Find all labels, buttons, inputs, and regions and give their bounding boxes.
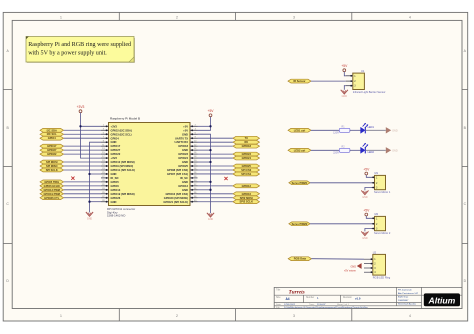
sensor S1 Infrared Light Barrier Sensor: [346, 69, 386, 94]
svg-text:SPI MISO: SPI MISO: [46, 164, 58, 168]
svg-text:I2C SCL: I2C SCL: [47, 132, 57, 136]
svg-text:+3V3: +3V3: [111, 156, 118, 160]
svg-text:IR Sensor: IR Sensor: [293, 79, 305, 83]
svg-text:GPIO17: GPIO17: [111, 144, 121, 148]
svg-text:GPIO19 PWM: GPIO19 PWM: [44, 192, 60, 196]
port GPIO27 (left): [40, 148, 101, 152]
svg-text:Raspberry Pi Model B: Raspberry Pi Model B: [110, 117, 140, 121]
svg-text:GPIO27: GPIO27: [47, 148, 57, 152]
port SPI MISO (left): [40, 164, 101, 168]
svg-text:RGB Data: RGB Data: [294, 257, 307, 261]
svg-text:Date:: Date:: [276, 303, 282, 306]
junction: [79, 125, 81, 127]
svg-text:Servo PWM2: Servo PWM2: [292, 222, 308, 226]
svg-text:GPIO20 (SPI MOSI): GPIO20 (SPI MOSI): [164, 196, 188, 200]
ground arrow (right): [386, 147, 391, 153]
svg-text:GND: GND: [111, 200, 117, 204]
ground symbol right: [207, 213, 214, 217]
svg-text:220R: 220R: [333, 152, 339, 155]
svg-text:SPI SCLK: SPI SCLK: [46, 168, 58, 172]
svg-text:GPIO25: GPIO25: [178, 164, 188, 168]
svg-text:+5V: +5V: [183, 128, 188, 132]
svg-text:GPIO26: GPIO26: [111, 196, 121, 200]
svg-text:Number: Number: [306, 296, 314, 299]
svg-text:4: 4: [409, 314, 411, 318]
zone reference ticks and labels: [118, 12, 120, 20]
svg-text:SPI CS0: SPI CS0: [241, 168, 252, 172]
svg-text:LED1: LED1: [368, 126, 375, 129]
svg-text:GPIO8 (SPI CS0): GPIO8 (SPI CS0): [167, 168, 188, 172]
svg-text:1: 1: [60, 314, 62, 318]
port TX (right): [198, 136, 260, 140]
wire: [350, 149, 361, 151]
svg-text:GPIO19 (SPI MISO): GPIO19 (SPI MISO): [111, 192, 135, 196]
right GND rail: [198, 134, 212, 213]
svg-text:Servo Motor 2: Servo Motor 2: [374, 231, 391, 235]
svg-text:GPIO4: GPIO4: [48, 136, 56, 140]
port SPI CS1 (right): [198, 172, 260, 176]
wire +3V3 to pin 1: [81, 125, 102, 127]
svg-text:GPIO23: GPIO23: [242, 152, 252, 156]
svg-text:GPIO5 TRIG: GPIO5 TRIG: [44, 180, 59, 184]
port GPIO6 ECHO (left): [40, 184, 101, 188]
ground (servo): [361, 188, 371, 199]
resistor R2 220R: [333, 145, 350, 154]
port SPI MOSI (left): [40, 160, 101, 164]
servo motor M1: [372, 171, 391, 194]
Altium logo: [424, 293, 460, 306]
connector J1 Raspberry Pi Model B: [101, 117, 198, 218]
port LED1 ctrl (LED drive): [288, 128, 340, 132]
svg-text:22:04:37: 22:04:37: [317, 304, 326, 306]
svg-text:2: 2: [176, 15, 178, 19]
svg-text:GPIO6: GPIO6: [111, 184, 120, 188]
svg-text:GND: GND: [182, 132, 188, 136]
power +5V (IR): [341, 64, 348, 76]
LED LED1: [361, 123, 375, 133]
svg-text:RX: RX: [244, 140, 248, 144]
port GPIO12 (right): [198, 184, 260, 188]
svg-text:+5V extern: +5V extern: [344, 269, 357, 272]
svg-text:GND: GND: [362, 196, 368, 199]
svg-text:Infrared Light Barrier Sensor: Infrared Light Barrier Sensor: [353, 90, 386, 94]
svg-text:GND: GND: [111, 172, 117, 176]
svg-text:GND: GND: [208, 218, 214, 221]
svg-text:ID_SD: ID_SD: [111, 176, 119, 180]
power port +5V (header): [198, 109, 215, 130]
port GPIO19 PWM (left): [40, 192, 101, 196]
ground arrow (right): [386, 127, 391, 133]
svg-text:UART0 RX: UART0 RX: [175, 140, 189, 144]
port RX (right): [198, 140, 260, 144]
svg-text:ID_SC: ID_SC: [180, 176, 188, 180]
port SPI CS0 (right): [198, 168, 260, 172]
svg-text:GND: GND: [182, 180, 188, 184]
wire: [350, 129, 361, 131]
svg-text:GND: GND: [111, 140, 117, 144]
svg-text:GPIO16: GPIO16: [242, 192, 252, 196]
svg-text:TX: TX: [245, 136, 249, 140]
external supply arrow (GND / +5V extern): [344, 263, 362, 272]
port GPIO23 (right): [198, 152, 260, 156]
ground (IR): [341, 86, 348, 99]
port Servo PWM2 (servo): [289, 222, 372, 226]
svg-text:I2C SDA: I2C SDA: [47, 128, 57, 132]
no-ERC marker right (ID_SC): [224, 177, 227, 180]
svg-text:GND: GND: [362, 237, 368, 240]
port LED2 ctrl (LED drive): [288, 148, 340, 152]
power +5V (servo): [363, 208, 371, 218]
svg-text:SPI2 SCLK: SPI2 SCLK: [240, 200, 254, 204]
svg-text:Altium: Altium: [428, 296, 456, 306]
no-ERC marker left (ID_SD): [71, 177, 74, 180]
port Servo PWM1 (servo): [289, 181, 372, 185]
svg-text:+3V3: +3V3: [77, 105, 85, 109]
svg-text:GPIO13: GPIO13: [111, 188, 121, 192]
port GPIO24 (right): [198, 156, 260, 160]
svg-text:GPIO4: GPIO4: [111, 136, 120, 140]
svg-text:Size: Size: [276, 297, 281, 299]
port GPIO16 (right): [198, 192, 260, 196]
svg-text:UART0 TX: UART0 TX: [175, 136, 188, 140]
svg-text:GPIO9 (SPI MISO): GPIO9 (SPI MISO): [111, 164, 134, 168]
svg-text:A4: A4: [286, 297, 290, 301]
port I2C SCL (left): [40, 132, 101, 136]
note: power supply comment: [26, 37, 134, 63]
svg-text:+5V: +5V: [363, 208, 370, 212]
port I2C SDA (left): [40, 128, 101, 132]
svg-text:GPIO3 (I2C SCL): GPIO3 (I2C SCL): [111, 132, 132, 136]
svg-text:Steiermark Austria: Steiermark Austria: [398, 303, 417, 306]
svg-text:GPIO11 (SPI SCLK): GPIO11 (SPI SCLK): [111, 168, 136, 172]
svg-text:GPIO12: GPIO12: [242, 184, 252, 188]
svg-text:Revision: Revision: [343, 297, 353, 299]
svg-text:1568-1462-ND: 1568-1462-ND: [107, 214, 125, 218]
svg-text:Servo PWM1: Servo PWM1: [292, 181, 308, 185]
svg-text:GPIO22: GPIO22: [111, 152, 121, 156]
port GPIO24 (IR sensor): [288, 79, 346, 83]
port SPI2 SCLK (right): [198, 200, 260, 204]
svg-text:GND: GND: [182, 148, 188, 152]
svg-text:v1.0: v1.0: [355, 296, 361, 300]
svg-text:3: 3: [293, 314, 295, 318]
power port +3V3: [77, 105, 101, 158]
svg-text:RGB LED Ring: RGB LED Ring: [373, 276, 391, 280]
svg-text:GPIO17: GPIO17: [47, 144, 57, 148]
svg-text:2008/9607: 2008/9607: [398, 300, 409, 302]
ground symbol left: [86, 212, 93, 216]
svg-text:GPIO10 (SPI MOSI): GPIO10 (SPI MOSI): [111, 160, 135, 164]
svg-text:GPIO27: GPIO27: [111, 148, 121, 152]
ground (servo): [361, 229, 371, 240]
svg-text:Alte Poststrasse 147: Alte Poststrasse 147: [398, 292, 419, 295]
port GPIO13 PWM (left): [40, 188, 101, 192]
resistor R1 120R: [333, 125, 350, 134]
svg-text:with 5V by a power supply unit: with 5V by a power supply unit.: [28, 51, 107, 57]
svg-text:GPIO23: GPIO23: [178, 152, 188, 156]
wire to ground: [365, 149, 386, 151]
svg-text:+5V: +5V: [183, 124, 188, 128]
svg-text:GND: GND: [182, 188, 188, 192]
svg-text:GPIO16 (SPI CS0): GPIO16 (SPI CS0): [165, 192, 188, 196]
svg-text:Time:: Time:: [309, 304, 315, 306]
svg-text:Servo Motor 1: Servo Motor 1: [374, 190, 391, 194]
LED LED2: [361, 143, 375, 154]
port GPIO26 CTL (left): [40, 196, 101, 200]
svg-text:GPIO18: GPIO18: [242, 144, 252, 148]
svg-text:File:: File:: [276, 307, 281, 309]
port SPI SCLK (left): [40, 168, 101, 172]
svg-text:GPIO24: GPIO24: [178, 156, 188, 160]
svg-text:D:\Uni\Mechatronics\5.Semester: D:\Uni\Mechatronics\5.Semester\Projektma…: [284, 306, 369, 309]
svg-text:Title: Title: [276, 289, 281, 292]
port GPIO12 (RGB ring): [288, 257, 364, 261]
svg-text:GPIO24: GPIO24: [242, 156, 252, 160]
svg-text:+5V: +5V: [363, 167, 370, 171]
port SPI2 MOSI (right): [198, 196, 260, 200]
svg-text:GPIO7 (SPI CS1): GPIO7 (SPI CS1): [167, 172, 188, 176]
junction: [209, 125, 211, 127]
port GPIO17 (left): [40, 144, 101, 148]
svg-text:M2: M2: [375, 212, 379, 216]
title block texts: [276, 289, 419, 310]
svg-text:U1: U1: [361, 69, 365, 73]
svg-text:GPIO22: GPIO22: [47, 152, 57, 156]
port GPIO18 (right): [198, 144, 260, 148]
svg-text:LED1 ctrl: LED1 ctrl: [294, 128, 306, 132]
svg-text:GPIO25: GPIO25: [242, 164, 252, 168]
svg-text:8020 Graz: 8020 Graz: [398, 296, 408, 299]
svg-text:GND: GND: [392, 149, 398, 152]
title block: [274, 287, 462, 308]
RGB LED Ring U2: [364, 250, 391, 279]
svg-text:2: 2: [176, 314, 178, 318]
left GND rail: [88, 142, 101, 212]
svg-text:GND: GND: [392, 129, 398, 132]
svg-text:GPIO21 (SPI SCLK): GPIO21 (SPI SCLK): [163, 200, 188, 204]
svg-text:GPIO13 PWM: GPIO13 PWM: [44, 188, 60, 192]
svg-text:U2: U2: [373, 250, 377, 254]
svg-text:GPIO26 CTL: GPIO26 CTL: [44, 196, 60, 200]
svg-text:LED2 ctrl: LED2 ctrl: [294, 148, 306, 152]
svg-text:GND: GND: [342, 95, 348, 98]
svg-text:Sheet 1 of 1: Sheet 1 of 1: [337, 303, 350, 306]
servo motor M2: [372, 212, 391, 235]
svg-text:+5V: +5V: [208, 109, 215, 113]
svg-text:+3V3: +3V3: [111, 124, 118, 128]
svg-text:17/01/2022: 17/01/2022: [284, 304, 296, 306]
svg-text:GPIO12: GPIO12: [178, 184, 188, 188]
port GPIO25 (right): [198, 164, 260, 168]
svg-text:GPIO2 (I2C SDA): GPIO2 (I2C SDA): [111, 128, 132, 132]
svg-text:GND: GND: [87, 217, 93, 220]
svg-text:LED2: LED2: [368, 151, 375, 154]
svg-text:M1: M1: [375, 171, 379, 175]
svg-text:GND: GND: [182, 160, 188, 164]
svg-text:SPI MOSI: SPI MOSI: [46, 160, 58, 164]
wire to ground: [365, 129, 386, 131]
power +5V (servo): [363, 167, 371, 177]
svg-text:120R: 120R: [333, 132, 339, 135]
svg-text:GPIO6 ECHO: GPIO6 ECHO: [44, 184, 60, 188]
svg-text:1: 1: [60, 15, 62, 19]
wire +5V pin1: [198, 125, 211, 127]
svg-text:GND: GND: [350, 265, 356, 268]
svg-text:SPI CS1: SPI CS1: [241, 172, 252, 176]
port GPIO4 (left): [40, 136, 101, 140]
svg-text:Raspberry Pi and RGB ring were: Raspberry Pi and RGB ring were supplied: [28, 42, 131, 48]
svg-text:GPIO5: GPIO5: [111, 180, 120, 184]
port GPIO5 TRIG (left): [40, 180, 101, 184]
svg-text:Turrets: Turrets: [289, 290, 305, 296]
svg-text:SPI2 MOSI: SPI2 MOSI: [240, 196, 253, 200]
svg-text:3: 3: [293, 15, 295, 19]
port GPIO22 (left): [40, 152, 101, 156]
svg-text:4: 4: [409, 15, 411, 19]
svg-text:FH Joanneum: FH Joanneum: [398, 289, 412, 291]
svg-text:+5V: +5V: [341, 64, 348, 68]
svg-text:GPIO18: GPIO18: [178, 144, 188, 148]
